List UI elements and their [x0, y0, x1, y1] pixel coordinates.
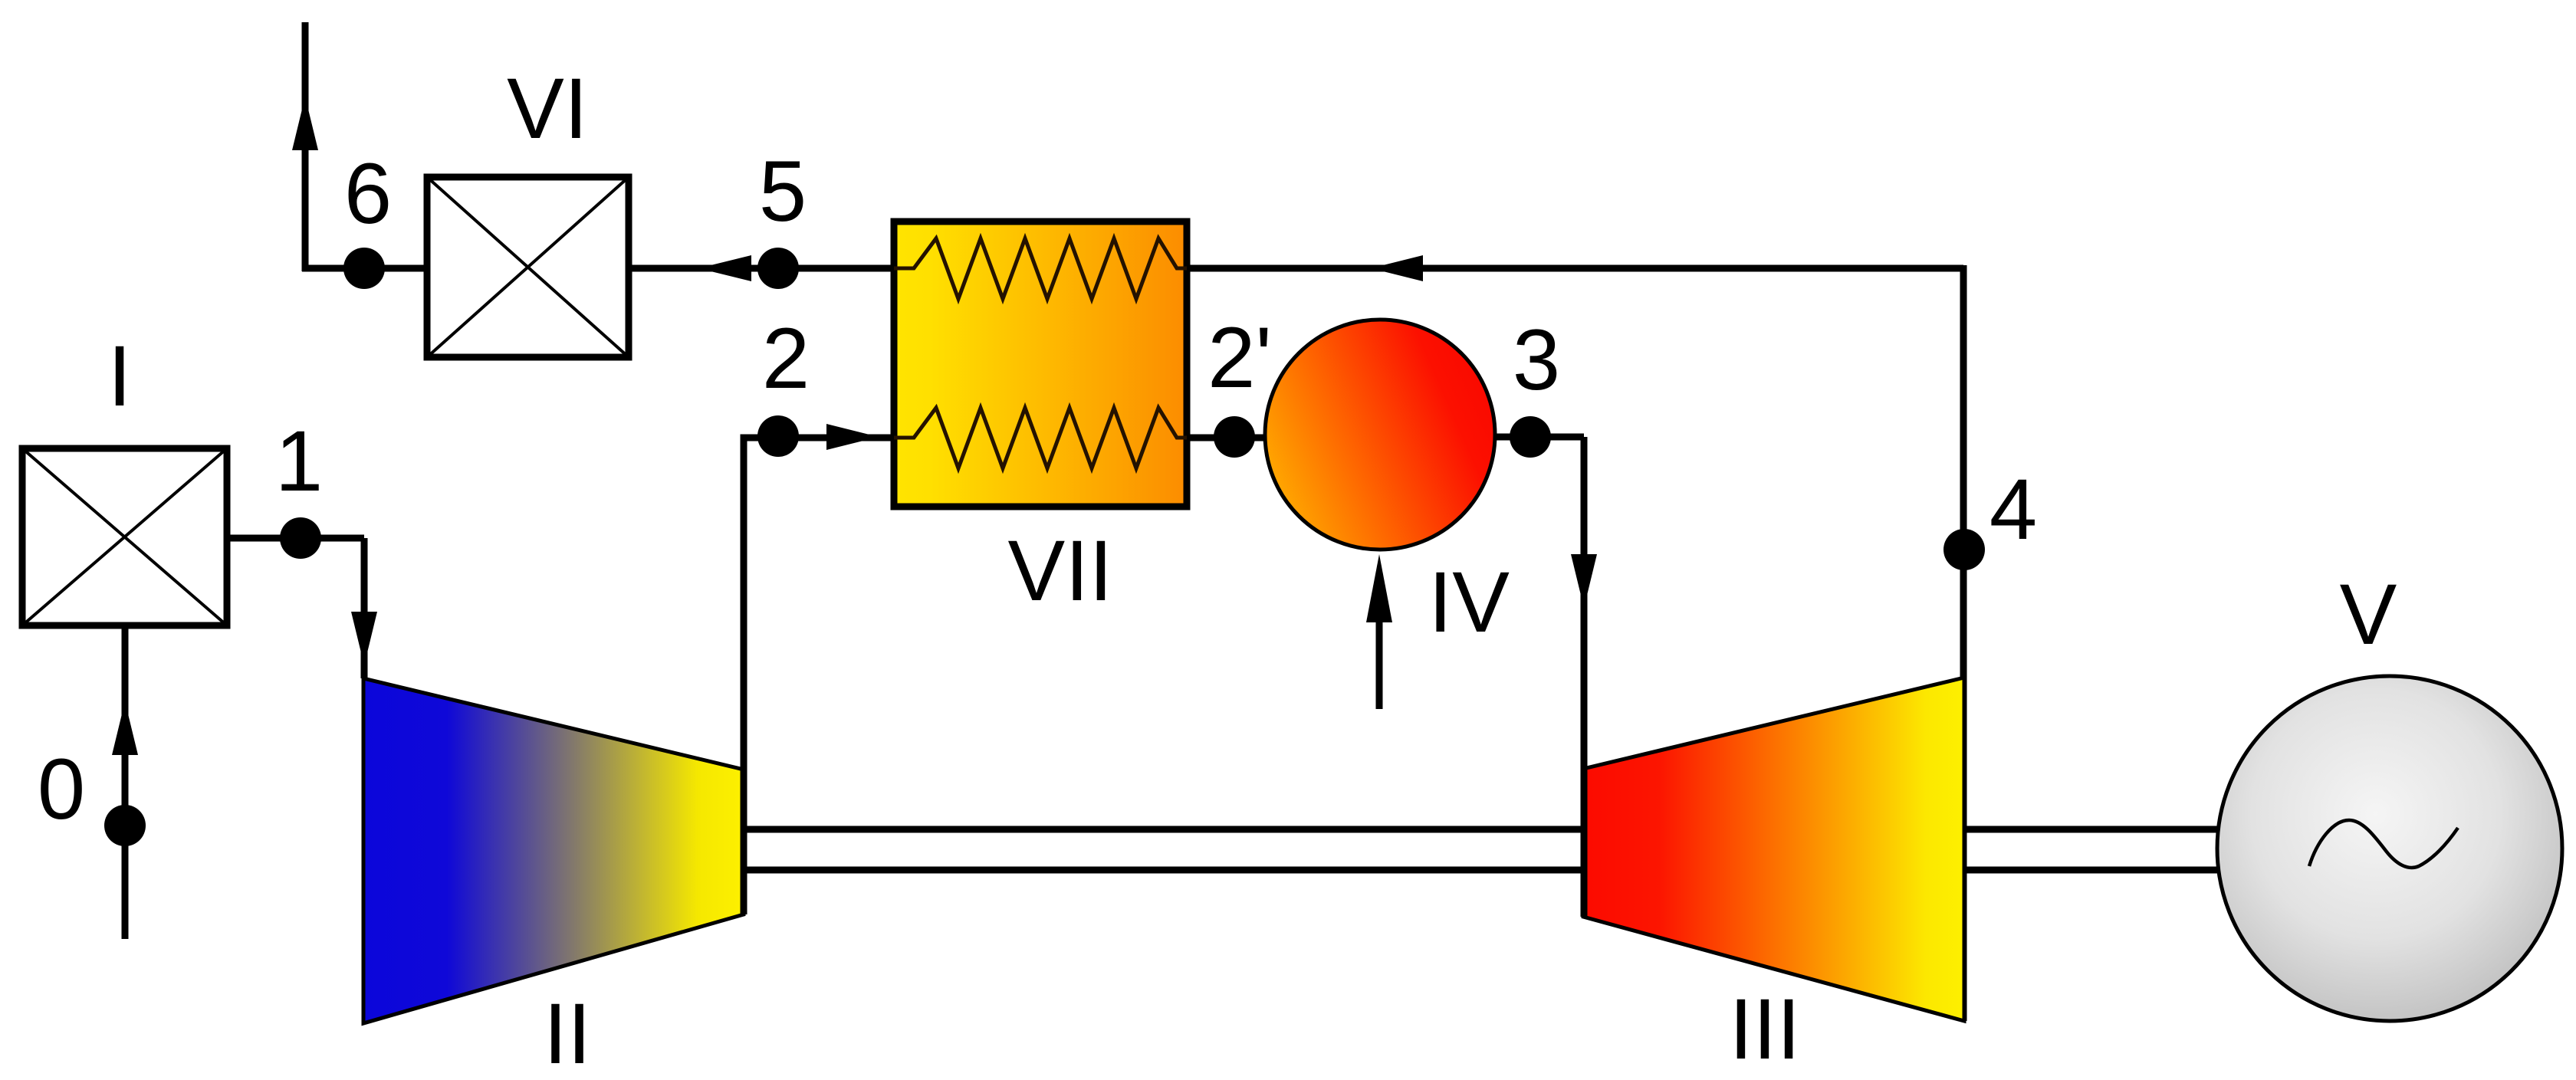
arrow down toward III — [1571, 554, 1597, 608]
wire intake into box I (node 0) — [122, 625, 129, 939]
intake box I — [22, 448, 227, 625]
sine wave inside V — [2309, 820, 2458, 868]
arrow right toward VII — [826, 424, 879, 450]
wire vertical corner to turbine outlet — [1960, 265, 1967, 1021]
arrow left toward VII — [1371, 255, 1423, 281]
shaft III to V — [1964, 829, 2219, 870]
node 1 — [280, 517, 321, 559]
wire box I to compressor (node 1) — [227, 538, 364, 678]
fuel arrow into IV — [1376, 583, 1383, 709]
node 2' — [1214, 416, 1255, 458]
generator V — [2217, 676, 2562, 1021]
svg-text:IV: IV — [1428, 554, 1510, 650]
node 2 — [757, 415, 799, 457]
wire VII to combustor (node 2') — [1187, 435, 1273, 442]
arrow up on exhaust wire — [292, 97, 318, 150]
svg-text:I: I — [107, 328, 131, 424]
zigzag coil bottom in VII — [894, 408, 1187, 468]
heat rejection box VI — [427, 177, 629, 357]
recuperator box VII — [894, 222, 1187, 507]
svg-text:VII: VII — [1008, 523, 1113, 619]
node 0 — [104, 805, 146, 846]
svg-text:II: II — [544, 986, 591, 1080]
box I X-cross — [22, 448, 227, 625]
svg-text:5: 5 — [759, 143, 807, 239]
svg-text:V: V — [2340, 566, 2397, 662]
turbine inlet edge overlap — [1581, 769, 1588, 917]
svg-text:3: 3 — [1513, 312, 1560, 408]
wire VI to VII (node 5) — [629, 265, 894, 272]
svg-text:1: 1 — [275, 413, 323, 509]
node 6 — [343, 248, 385, 289]
arrow down toward II — [351, 612, 377, 665]
wire VII hot inlet from corner 4 — [1187, 265, 1963, 272]
wire compressor outlet to node 2 — [744, 438, 894, 914]
arrow up toward I — [112, 701, 138, 755]
turbine III — [1583, 678, 1964, 1021]
wire combustor to turbine (node 3) — [1495, 437, 1584, 917]
shaft II to III — [744, 829, 1583, 870]
svg-text:VI: VI — [507, 61, 588, 156]
zigzag coil top in VII — [894, 238, 1187, 299]
node 5 — [757, 248, 799, 289]
node 3 — [1510, 416, 1551, 458]
arrow left toward VI — [698, 255, 751, 281]
svg-text:6: 6 — [344, 146, 392, 241]
wire node6 horizontal to box VI — [302, 265, 427, 272]
compressor II — [363, 678, 744, 1023]
node 4 — [1944, 529, 1985, 570]
svg-text:0: 0 — [38, 741, 85, 837]
svg-text:2: 2 — [762, 310, 810, 406]
svg-text:4: 4 — [1990, 461, 2037, 557]
svg-text:III: III — [1729, 981, 1800, 1077]
combustor circle IV — [1265, 320, 1495, 550]
box VI X-cross — [427, 177, 629, 357]
wire exhaust vertical from node 6 up — [302, 22, 309, 271]
compressor outlet edge overlap — [741, 770, 747, 914]
svg-text:2': 2' — [1207, 310, 1272, 405]
